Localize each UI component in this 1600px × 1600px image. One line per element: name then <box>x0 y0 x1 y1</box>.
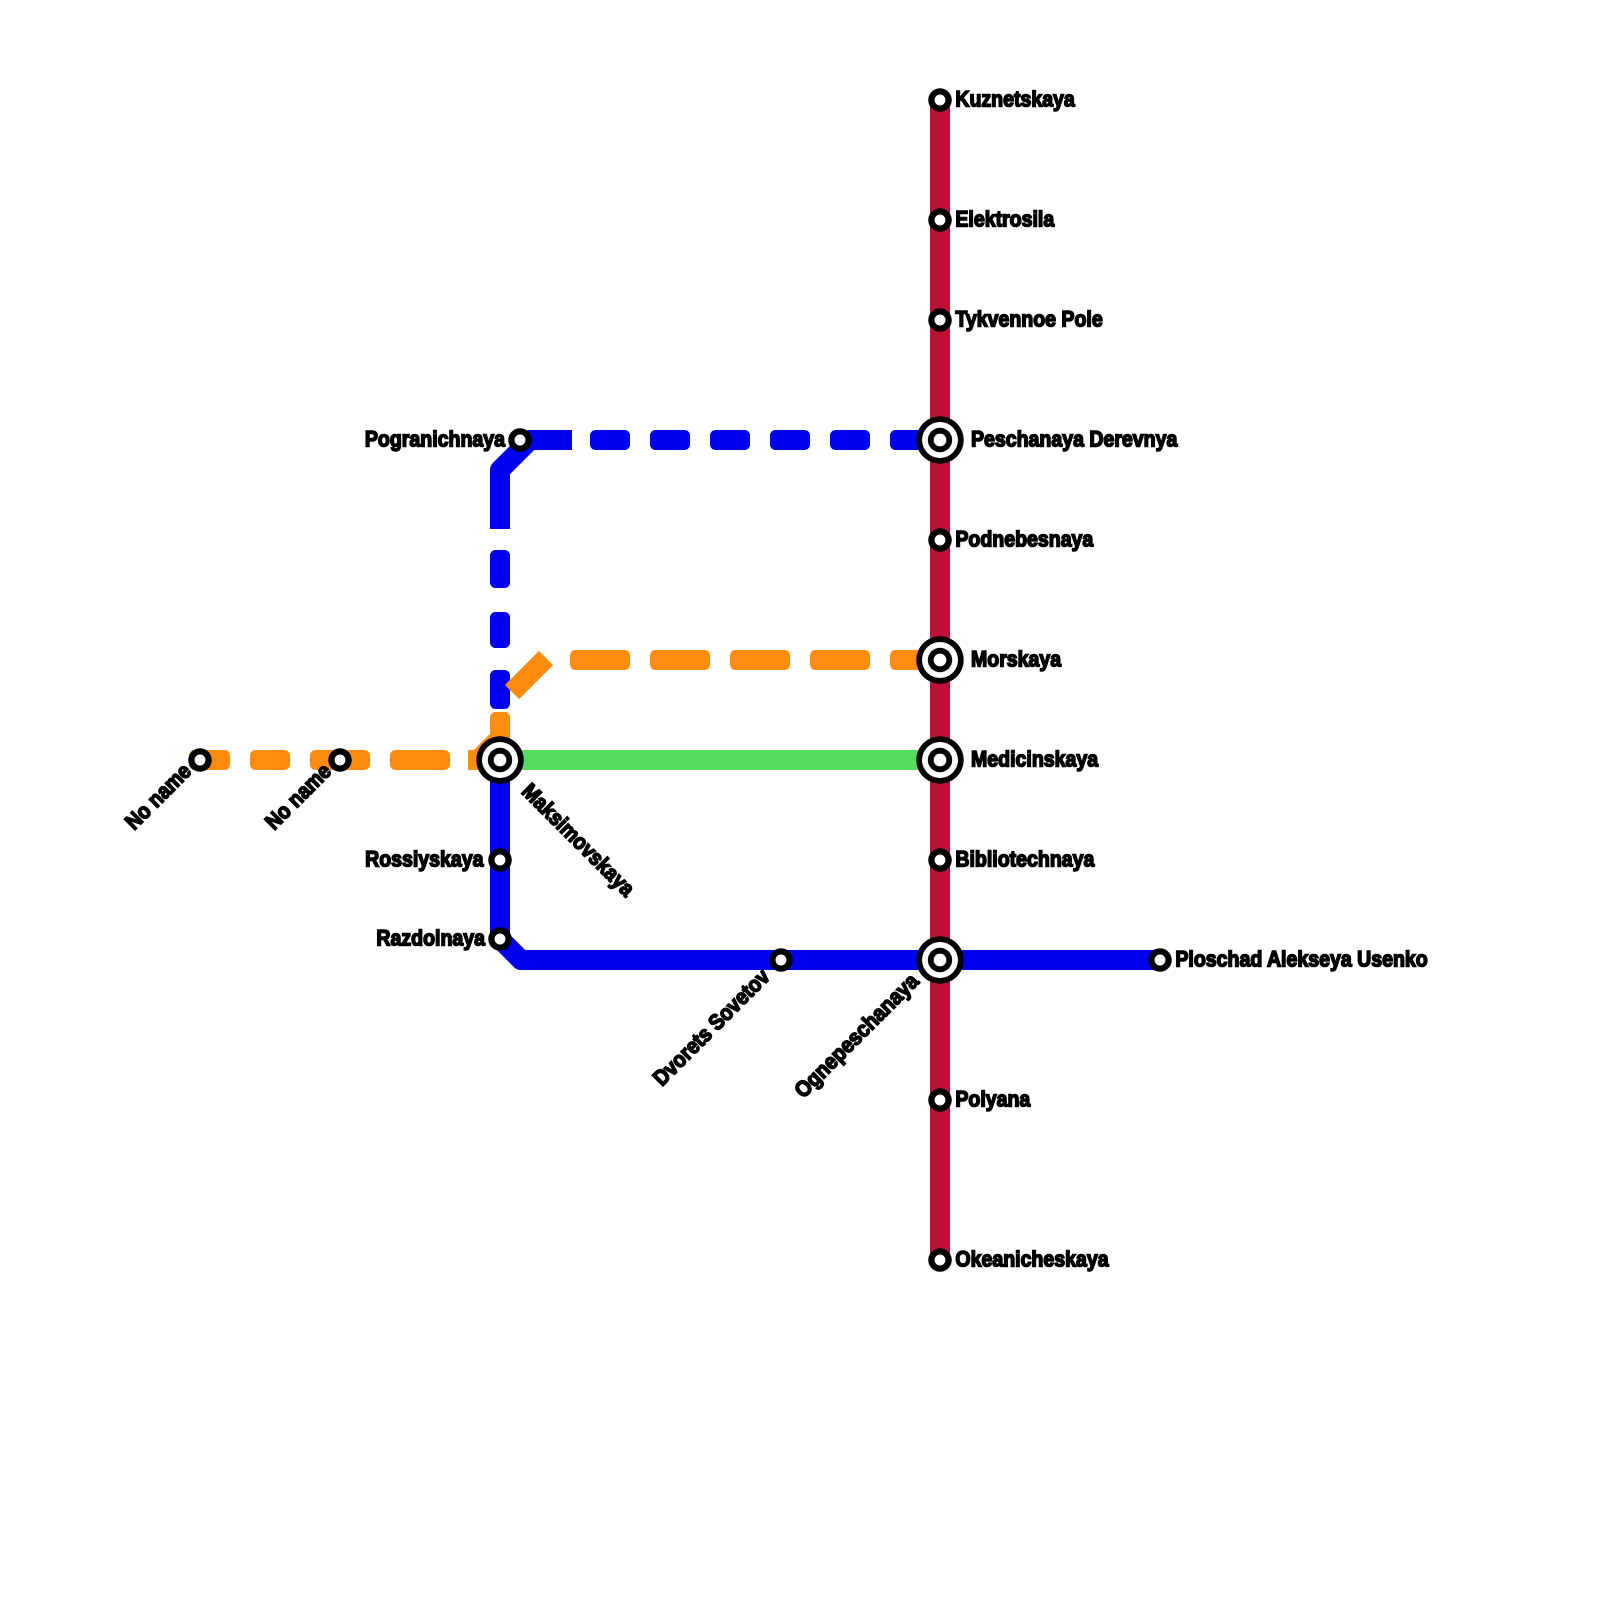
svg-text:Medicinskaya: Medicinskaya <box>971 747 1099 772</box>
station Podnebesnaya <box>931 531 948 548</box>
station Polyana <box>931 1091 948 1108</box>
svg-text:Bibliotechnaya: Bibliotechnaya <box>955 847 1095 872</box>
station Elektrosila <box>931 211 948 228</box>
station No name (second) <box>331 751 348 768</box>
station Pogranichnaya <box>511 431 528 448</box>
svg-text:Tykvennoe Pole: Tykvennoe Pole <box>955 307 1102 332</box>
svg-text:Kuznetskaya: Kuznetskaya <box>955 87 1075 112</box>
station Ploschad Alekseya Usenko <box>1151 951 1168 968</box>
station Razdolnaya <box>491 930 508 947</box>
blue dashed line: vertical dashes x=500 <box>490 550 510 709</box>
svg-text:Razdolnaya: Razdolnaya <box>376 926 485 951</box>
station Tykvennoe Pole <box>931 311 948 328</box>
interchange Maksimovskaya <box>476 736 523 783</box>
red line (vertical trunk) <box>930 95 950 1266</box>
station Dvorets Sovetov <box>772 951 789 968</box>
orange line: bevel corner into Maksimovskaya <box>468 730 500 760</box>
orange line: left dashes y=760 <box>189 750 450 770</box>
station Okeanicheskaya <box>931 1251 948 1268</box>
orange line: diagonal dash <box>512 658 546 692</box>
svg-text:Podnebesnaya: Podnebesnaya <box>955 527 1094 552</box>
station Bibliotechnaya <box>931 851 948 868</box>
interchange Peschanaya Derevnya <box>916 416 963 463</box>
green line Maksimovskaya-Medicinskaya <box>500 750 940 770</box>
svg-text:Ploschad Alekseya Usenko: Ploschad Alekseya Usenko <box>1175 947 1427 972</box>
orange line: horizontal dashes y=660 <box>570 650 935 670</box>
orange line: vertical dash above Maksimovskaya <box>490 712 510 746</box>
svg-text:Okeanicheskaya: Okeanicheskaya <box>955 1247 1109 1272</box>
station No name (left) <box>191 751 208 768</box>
interchange Ognepeschanaya <box>916 936 963 983</box>
svg-text:Polyana: Polyana <box>955 1087 1031 1112</box>
svg-text:Elektrosila: Elektrosila <box>955 207 1054 232</box>
interchange Morskaya <box>916 636 963 683</box>
interchange Medicinskaya <box>916 736 963 783</box>
svg-text:Morskaya: Morskaya <box>971 647 1062 672</box>
blue dashed line: horizontal dashes y=440 <box>590 430 930 450</box>
blue solid line Maksimovskaya-Razdolnaya-Ploschad <box>500 760 1160 960</box>
blue dashed line: corner solid piece at Pogranichnaya <box>500 440 572 529</box>
station Rossiyskaya <box>491 851 508 868</box>
svg-text:Pogranichnaya: Pogranichnaya <box>365 427 506 452</box>
svg-text:Peschanaya Derevnya: Peschanaya Derevnya <box>971 427 1178 452</box>
station Kuznetskaya <box>931 91 948 108</box>
svg-text:Rossiyskaya: Rossiyskaya <box>365 847 484 872</box>
